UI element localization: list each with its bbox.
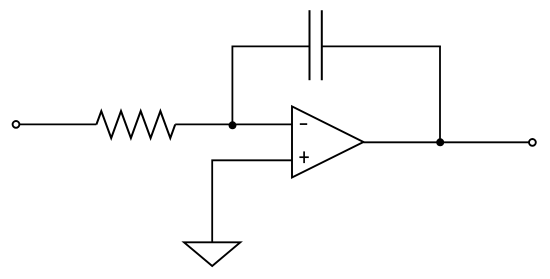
op-amp U1	[292, 106, 364, 177]
ground	[184, 242, 240, 266]
wire junction up to feedback	[231, 46, 233, 124]
node junction at inverting input	[229, 121, 237, 129]
capacitor C1 right plate	[321, 10, 323, 80]
wire input to resistor	[20, 123, 97, 125]
op-amp plus label	[299, 151, 308, 163]
wire feedback top left	[232, 45, 310, 47]
capacitor C1 left plate	[309, 10, 311, 80]
op-amp minus label	[300, 123, 307, 125]
output terminal	[529, 139, 536, 146]
node junction at output	[436, 138, 444, 146]
input terminal	[13, 121, 20, 128]
wire feedback top right	[322, 45, 441, 47]
resistor R1	[96, 111, 175, 138]
wire non-inverting input	[212, 160, 292, 242]
wire feedback down to output node	[439, 46, 441, 142]
wire op-amp output to terminal	[364, 141, 530, 143]
wire resistor to op-amp inverting input	[175, 123, 292, 125]
